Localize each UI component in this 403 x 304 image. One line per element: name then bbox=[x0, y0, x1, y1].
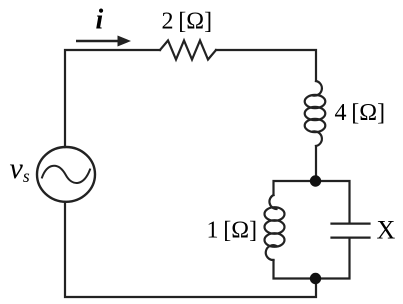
junction node top bbox=[310, 175, 321, 186]
inductor L 1ohm bbox=[265, 195, 285, 260]
source vs circle bbox=[37, 147, 95, 202]
junction node bottom bbox=[310, 273, 321, 284]
capacitor X plates bbox=[332, 224, 370, 238]
svg-text:2 [Ω]: 2 [Ω] bbox=[162, 9, 213, 35]
svg-text:vs: vs bbox=[10, 152, 30, 186]
wire parallel top rail bbox=[274, 181, 350, 223]
svg-text:4 [Ω]: 4 [Ω] bbox=[335, 100, 386, 126]
current arrow i bbox=[76, 36, 131, 47]
inductor L 4ohm bbox=[305, 81, 326, 146]
svg-text:i: i bbox=[96, 5, 104, 36]
svg-text:1 [Ω]: 1 [Ω] bbox=[207, 218, 258, 244]
source sine wave bbox=[42, 166, 90, 183]
wire top-left segment bbox=[65, 50, 160, 147]
resistor R 2ohm bbox=[160, 41, 216, 60]
svg-text:X: X bbox=[377, 216, 396, 245]
wire top-right segment bbox=[216, 50, 316, 81]
wire inductor4 to node bbox=[315, 146, 317, 181]
wire left-bottom bbox=[65, 202, 316, 297]
wire parallel bottom rail bbox=[274, 238, 350, 279]
